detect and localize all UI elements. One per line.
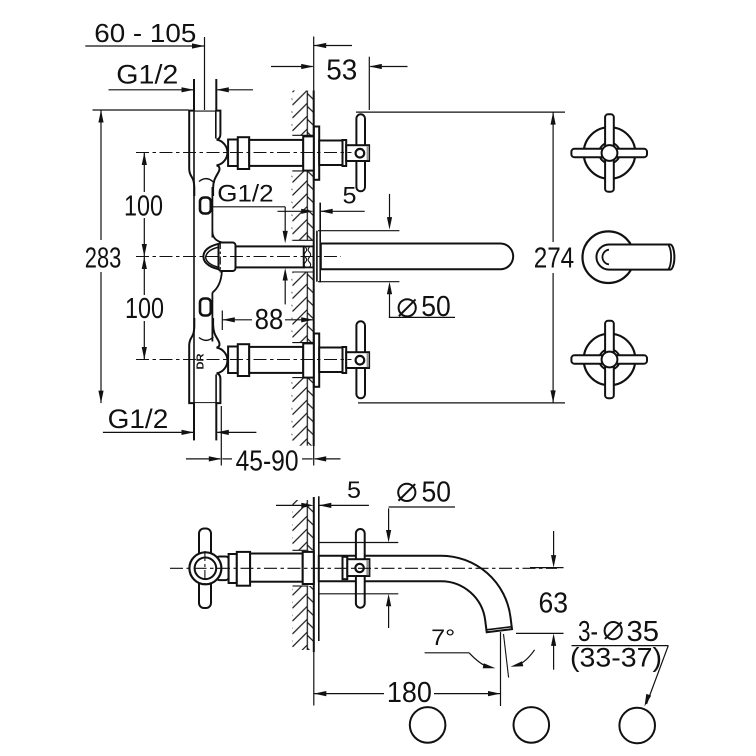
in-wall valve: wall block [303,552,314,584]
wall surface line (upper) [313,37,315,91]
spout aerator separator line [487,627,512,630]
valve 3 sleeve ring [343,347,347,373]
rough-in body: vertical bar [195,111,212,403]
svg-text:(33-37): (33-37) [570,643,662,673]
pipe edge into T3 [215,375,217,403]
in-wall valve: handle bar (edge-on) [199,529,211,609]
mounting hole circle 3 [619,708,655,744]
neck seam T1 [199,179,213,182]
svg-text:DR: DR [195,353,207,369]
svg-text:G1/2: G1/2 [116,59,178,89]
svg-text:G1/2: G1/2 [108,404,169,434]
handle front view: vertical arm [605,114,614,191]
svg-text:60 - 105: 60 - 105 [94,20,196,48]
top supply pipe stub G1/2 [195,79,215,110]
dim 274 [356,111,565,113]
in-wall valve: hub outer circle [189,552,221,584]
handle front view: hub circle [602,352,618,368]
valve 1 cylinder [249,140,303,166]
valve 1 handle screw [356,149,365,158]
handle front view: vertical arm [605,321,614,398]
svg-text:63: 63 [539,588,569,620]
rough-in body: top T fitting with valve socket dome [189,111,227,196]
body slot 2 [200,299,211,316]
handle front view: horizontal arm [571,149,647,157]
spray direction line (7 deg) [504,634,509,678]
valve 2 thread at wall [304,246,314,267]
dim 283 [93,109,189,111]
svg-text:283: 283 [85,242,122,274]
valve 3 wall nut [303,343,314,377]
handle front view: stem ring circle [599,349,620,370]
body slot 1 [200,198,211,214]
valve 3 handle bar (side view) [356,321,365,398]
svg-text:180: 180 [387,677,432,709]
centerline (lower) [170,567,557,569]
mounting hole circle 2 [514,707,550,743]
valve 2 riser centerline [219,241,221,273]
spout front view: inner cap arc [602,250,609,265]
svg-text:88: 88 [255,304,284,336]
svg-text:G1/2: G1/2 [217,180,273,207]
in-wall valve: ring 1 [229,554,237,583]
handle front view: escutcheon circle [584,127,636,179]
dim 180 [500,632,502,706]
spout flange lines at wall [316,231,318,282]
valve 3 trim sleeve [319,348,344,373]
wall surface line (lower) [313,497,315,652]
valve 1 trim sleeve [319,141,344,166]
valve 3 handle hub [346,352,369,368]
valve 1 wall nut [303,136,314,170]
valve 3 cylinder [249,347,303,373]
in-wall valve: collar behind handle hub [217,557,229,581]
valve 1 escutcheon [314,127,319,180]
in-wall valve: hub inner circle [195,558,217,580]
svg-text:100: 100 [125,293,164,325]
valve 1 ring 2 [238,137,249,169]
valve 2 elbow dome [203,243,222,270]
valve 2 cylinder [236,246,304,267]
valve centerlines (dash-dot) [136,152,352,154]
dim diameter 50 upper [389,194,391,218]
handle front view: stem ring circle [599,143,620,164]
rough-in body: bottom T fitting with valve socket dome [189,318,227,403]
svg-text:53: 53 [326,55,357,87]
body bar right edge segments [211,187,213,238]
dim 63 [530,567,564,569]
valve 2 junction skirt curves [212,232,222,243]
dim 45-90 [220,406,222,466]
svg-text:100: 100 [124,191,163,223]
dim 100 upper [143,153,145,193]
spout front view: escutcheon circle [583,231,635,283]
svg-text:7°: 7° [431,625,455,650]
svg-text:50: 50 [422,476,452,508]
spout flange top/bottom extension lines [318,230,399,232]
side handle sleeve ring (lower) [343,557,348,579]
side handle bar (lower) [356,529,365,608]
valve 3 escutcheon [314,334,319,387]
handle front view: escutcheon circle [584,334,636,386]
escutcheon top/bottom extension lines (lower) [319,542,399,544]
dim 100 lower [143,257,145,296]
side handle hub (lower) [347,559,369,576]
svg-text:45-90: 45-90 [236,446,299,478]
spout tube (side projection, upper view) [321,244,513,270]
side handle screw (lower) [355,564,363,572]
valve 1 handle hub [346,145,369,161]
valve 2 head block [219,243,236,272]
valve 3 handle screw [356,356,365,365]
in-wall valve: ring 2 flange [237,552,250,586]
valve 1 handle bar (side view) [356,114,365,191]
dim diameter 50 lower [398,484,415,501]
escutcheon face line (lower) [318,496,320,641]
in-wall valve: cylinder [250,554,303,582]
wall section (lower) with masonry hatch [292,500,314,550]
handle front view: hub circle [602,145,618,161]
bottom supply pipe stub G1/2 [195,403,215,440]
neck seam T3 [199,337,213,340]
valve 1 sleeve ring [343,140,347,166]
mounting hole circle 1 [410,707,446,743]
svg-text:5: 5 [347,477,361,504]
spout front view: aerator end inner arc [668,245,671,269]
body bar inner left edge line [193,112,195,403]
handle front view: horizontal arm [571,355,647,363]
dim 88 [221,311,223,331]
valve 3 ring 2 [238,344,249,376]
valve 1 ring 1 [228,140,238,167]
valve 3 ring 1 [228,347,238,374]
svg-text:274: 274 [534,242,575,274]
svg-text:5: 5 [343,183,357,210]
wall section (upper) with masonry hatch [292,91,314,136]
pipe edge into T1 [215,111,217,139]
dim 60-105 [85,45,204,47]
spout (lower side view) curved tube [319,556,512,633]
svg-text:50: 50 [421,291,451,323]
spout front view: tube [596,245,674,270]
